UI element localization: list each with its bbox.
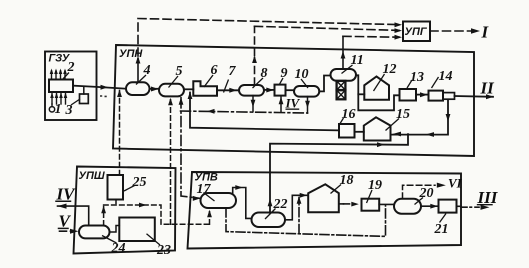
leader 23 [147, 234, 161, 245]
wire 11 to tank 12 and to 13 [356, 75, 400, 110]
water settler 17 [201, 193, 237, 208]
UPSh unit box [74, 167, 176, 254]
commodity oil outlet II [455, 95, 494, 98]
leader lines [62, 65, 446, 245]
well inflow arrows below 2 [52, 93, 66, 104]
leader 25 [124, 186, 135, 192]
svg-text:IV: IV [56, 185, 77, 204]
mixing vessel 24 [79, 226, 110, 239]
svg-text:16: 16 [342, 107, 356, 122]
UPV unit box [188, 172, 462, 249]
leader 24 [102, 236, 117, 244]
svg-text:10: 10 [295, 67, 309, 82]
leader 19 [367, 190, 373, 203]
riser from drain to 18 feed [298, 198, 300, 234]
recycle line 16 back to main line [190, 93, 339, 131]
stray scan dots [100, 95, 107, 97]
treated water outlet III [457, 205, 462, 207]
pump 19 [362, 199, 380, 211]
svg-text:VI: VI [448, 176, 463, 191]
svg-text:V: V [59, 211, 72, 230]
UPG outlet gas stream I [430, 30, 472, 32]
leader 9 [280, 78, 284, 84]
settler vessel 10 [294, 86, 319, 97]
drain from 10 [307, 97, 309, 113]
gas riser from 8 [254, 58, 256, 86]
leader 5 [169, 76, 179, 88]
leader 11 [342, 65, 353, 74]
leader 14 [432, 77, 439, 88]
leader 12 [374, 74, 385, 91]
leader 15 [386, 119, 400, 131]
water line down to UPV vessel 17 [181, 98, 200, 199]
svg-text:23: 23 [156, 243, 171, 258]
svg-text:6: 6 [211, 63, 218, 78]
wire 18 to pump 19 [339, 203, 344, 205]
svg-text:12: 12 [383, 62, 397, 77]
UPN unit box [113, 45, 474, 156]
separator vessel 8 [239, 85, 264, 96]
svg-text:9: 9 [281, 66, 288, 81]
svg-text:18: 18 [340, 173, 354, 188]
gas riser from 4 [137, 59, 139, 83]
storage tank 12 [364, 77, 389, 100]
svg-text:1: 1 [55, 102, 62, 117]
gas header line to UPG (from 4) [138, 19, 399, 25]
leader 22 [265, 209, 276, 220]
fresh water inlet IV [58, 206, 89, 225]
svg-text:5: 5 [176, 64, 183, 79]
wire 4 to 5 [150, 88, 160, 90]
UPG unit box [403, 22, 430, 42]
water tank 18 [308, 184, 339, 212]
svg-text:IV: IV [285, 96, 301, 111]
svg-text:8: 8 [261, 66, 268, 81]
svg-text:20: 20 [419, 186, 434, 201]
reagent dashed riser to vessel 5 [170, 99, 172, 225]
wire 24 to 23 [110, 226, 120, 233]
stub from main line to 3 [83, 87, 85, 94]
wire 20 to 21 [421, 205, 439, 207]
svg-text:4: 4 [143, 63, 151, 78]
reagent feed up into 17 [209, 211, 211, 225]
reagent line from 25 bottom [115, 200, 117, 206]
svg-text:25: 25 [132, 175, 147, 190]
heater 6 [193, 81, 217, 96]
reagent header inside UPSh [104, 205, 210, 224]
node labels [49, 23, 499, 259]
valve block 3 [80, 94, 89, 104]
svg-text:21: 21 [434, 222, 449, 237]
well inflow arrows above 2 [52, 71, 66, 79]
slop tank 15 [364, 117, 391, 140]
pump 16 [339, 124, 355, 138]
sludge outlet VI from 20 [403, 185, 436, 198]
filter vessel 20 [394, 199, 421, 214]
line from 22 up to tank 15 [270, 134, 408, 213]
svg-text:УПГ: УПГ [405, 26, 428, 38]
mixer 9 [275, 85, 286, 96]
water feed up to mixer 9 (stream IV) [280, 96, 282, 112]
gas header line to UPG (from 8) [255, 26, 400, 30]
wire 19 to 20 [379, 203, 394, 205]
leader 4 [136, 75, 146, 85]
wire 10 to column 11 [319, 76, 330, 92]
leader 18 [331, 185, 342, 194]
well symbol 1 [51, 104, 53, 107]
svg-text:15: 15 [396, 107, 410, 122]
reagent dashed riser from 25 to main line [119, 91, 121, 176]
svg-text:2: 2 [67, 60, 75, 75]
svg-text:11: 11 [351, 53, 364, 68]
sludge drain header in UPV [226, 205, 386, 237]
drain water line (dash-dot) under separators [181, 111, 308, 113]
leader 3 [71, 99, 80, 105]
pump unit 14 [429, 91, 444, 101]
pump 13 [400, 89, 417, 101]
wire 17 to 22 [233, 188, 252, 219]
wire 8 to mixer 9 [264, 89, 275, 91]
wire 13 to 14 [416, 94, 429, 96]
svg-text:3: 3 [65, 103, 73, 118]
pump 21 [439, 200, 457, 213]
gas riser from 11 [342, 36, 344, 69]
svg-text:24: 24 [111, 241, 126, 256]
svg-text:17: 17 [197, 182, 212, 197]
main flow line GZU to vessel 4 [73, 86, 126, 89]
separator vessel 5 [159, 84, 184, 97]
leader 21 [440, 214, 447, 223]
reagent storage 23 [119, 218, 155, 242]
leader 17 [204, 193, 215, 202]
flotation vessel 22 [252, 213, 286, 228]
svg-text:III: III [477, 188, 499, 207]
leader 2 [62, 73, 69, 81]
stabilization column 11 [331, 69, 357, 81]
wire 15 to 16 [355, 131, 364, 133]
leader 13 [407, 80, 412, 88]
leader 10 [301, 79, 308, 88]
wire 9 to 10 [286, 89, 295, 91]
svg-text:7: 7 [229, 64, 237, 79]
wire 22 to tank 18 [285, 195, 308, 220]
leader 6 [204, 75, 213, 87]
dosing tank 25 [108, 175, 124, 200]
leader 20 [415, 198, 424, 205]
svg-text:19: 19 [368, 178, 382, 193]
metering unit 2 [49, 80, 73, 93]
GZU unit box [45, 52, 97, 121]
wire 6 to 8 (pipeline 7) [217, 89, 239, 91]
leader 7 [224, 80, 229, 93]
leader 16 [339, 118, 344, 126]
recycle line 14 down to tank 15 [391, 101, 449, 135]
svg-text:14: 14 [439, 69, 453, 84]
svg-text:УПШ: УПШ [79, 170, 105, 182]
svg-text:22: 22 [273, 197, 288, 212]
drain from 8 [252, 96, 254, 112]
water inlet V [60, 230, 73, 232]
svg-text:УПН: УПН [119, 48, 143, 60]
wire 5 to heater 6 [184, 88, 193, 90]
riser from pump 24 [103, 207, 105, 226]
gas line to UPG (from 11) [343, 35, 399, 38]
svg-text:13: 13 [410, 70, 424, 85]
leader 8 [253, 78, 264, 88]
svg-text:II: II [480, 79, 496, 98]
separator vessel 4 [126, 82, 150, 95]
